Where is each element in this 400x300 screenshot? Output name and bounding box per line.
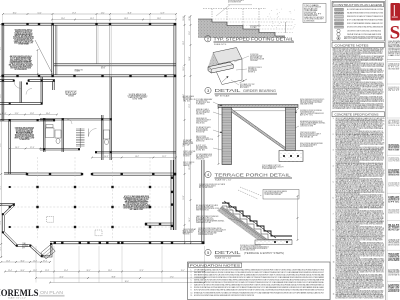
interior dim chain right part	[92, 157, 176, 159]
svg-text:27'-3": 27'-3"	[140, 270, 144, 272]
svg-text:MIN 6 IN: MIN 6 IN	[388, 213, 399, 215]
svg-text:11'-6": 11'-6"	[189, 31, 191, 35]
svg-text:IN 10: IN 10	[183, 100, 191, 102]
detail 3: title circle	[205, 87, 211, 93]
svg-text:GIRDER BEARING: GIRDER BEARING	[243, 89, 277, 93]
svg-text:11'-3": 11'-3"	[6, 260, 10, 262]
svg-text:16'-3": 16'-3"	[124, 18, 128, 20]
svg-text:DETAIL: DETAIL	[215, 250, 242, 255]
svg-text:16'-0": 16'-0"	[0, 220, 2, 224]
mid-left room partition	[19, 81, 21, 102]
hallway wall stub	[52, 81, 54, 90]
svg-text:WITH 2: WITH 2	[248, 72, 255, 74]
svg-text:6 FT OC: 6 FT OC	[388, 201, 399, 203]
svg-text:26'-9": 26'-9"	[157, 18, 161, 20]
svg-text:26'-1": 26'-1"	[15, 147, 19, 149]
svg-text:32'-1": 32'-1"	[87, 270, 91, 272]
garage: sloped floor diagonal	[35, 40, 53, 74]
svg-text:23'-0": 23'-0"	[61, 18, 65, 20]
mid-left room top wall	[0, 79, 14, 81]
title strip: red logo block	[391, 3, 400, 21]
detail 5: landing	[255, 240, 292, 245]
bottom wall	[50, 241, 204, 243]
detail 5: diagonal stringer line	[224, 201, 276, 238]
svg-text:REF: NO SCALE: REF: NO SCALE	[215, 94, 230, 97]
detail 4: upper slab line between walls	[232, 110, 286, 112]
svg-text:IN 10 FT: IN 10 FT	[388, 90, 399, 92]
svg-text:31'-8": 31'-8"	[30, 113, 34, 115]
pier grid dashed lines	[10, 186, 170, 188]
svg-text:10'-4": 10'-4"	[38, 12, 42, 14]
title strip: dividers and small blocks	[387, 59, 400, 61]
detail 5: stipple band under steps	[220, 206, 293, 242]
svg-text:6 IN IN: 6 IN IN	[196, 150, 205, 152]
floor plan: right dimension chain 1	[184, 16, 186, 244]
floor plan: bottom dimension chain 2	[36, 277, 205, 279]
mid horizontal dimension chain	[0, 114, 57, 116]
svg-text:29'-2": 29'-2"	[108, 270, 112, 272]
garage: wall posts	[2, 23, 4, 25]
garage: outer walls	[3, 22, 177, 24]
svg-text:8'-8": 8'-8"	[0, 46, 2, 50]
svg-text:22'-9": 22'-9"	[0, 185, 2, 189]
lower-left interior dim	[10, 148, 40, 150]
big slab room: right wall	[173, 23, 175, 230]
bath fixtures	[46, 128, 55, 138]
svg-text:26'-9": 26'-9"	[104, 156, 108, 158]
detail 2: small dim arrows	[285, 22, 287, 33]
detail 3: girder beam	[208, 62, 233, 73]
detail 5: title circle	[205, 249, 211, 255]
floor plan: bottom dimension chain 1	[5, 271, 205, 273]
bath cluster walls	[43, 118, 45, 152]
svg-text:31'-4": 31'-4"	[64, 270, 68, 272]
svg-text:17'-3": 17'-3"	[72, 12, 76, 14]
detail 4: left wall (block coursing)	[222, 108, 232, 165]
entry steps (rotated)	[41, 245, 55, 259]
stair treads	[76, 128, 85, 130]
svg-text:TERRACE PORCH DETAIL: TERRACE PORCH DETAIL	[215, 172, 292, 177]
foundation notes box	[188, 262, 331, 300]
detail 4: interior grade diagonal	[232, 109, 286, 150]
svg-text:15'-7": 15'-7"	[181, 270, 185, 272]
svg-text:10'-1": 10'-1"	[90, 18, 94, 20]
svg-text:DETAIL: DETAIL	[215, 88, 242, 93]
detail 3: leader lines	[234, 56, 249, 62]
detail 4: title circle	[205, 171, 211, 177]
terrace walls	[170, 160, 172, 230]
svg-text:17'-9": 17'-9"	[189, 104, 191, 108]
svg-text:WITH 2 NO: WITH 2 NO	[388, 186, 400, 188]
mid-left room door arc	[14, 81, 21, 88]
floor plan: bottom overall dimension chain	[50, 282, 205, 284]
svg-text:JOINTS 6 IN THE: JOINTS 6 IN THE	[300, 126, 313, 128]
svg-text:3000 PSI MIN: 3000 PSI MIN	[388, 161, 399, 163]
svg-text:FOUNDATION NOTES: FOUNDATION NOTES	[190, 264, 240, 268]
detail 4: top slab	[218, 105, 298, 108]
svg-text:31'-1": 31'-1"	[15, 113, 19, 115]
svg-text:6 FT: 6 FT	[22, 247, 25, 249]
big slab left wall	[55, 25, 57, 75]
lower interior long wall	[27, 172, 82, 174]
pier squares	[36, 186, 38, 188]
svg-text:SCALE: N.T.S.: SCALE: N.T.S.	[214, 43, 227, 46]
svg-text:ON PLAN: ON PLAN	[40, 290, 63, 295]
door arcs	[89, 129, 97, 137]
svg-text:18'-4": 18'-4"	[183, 16, 185, 20]
column separator lines	[330, 0, 332, 300]
svg-text:22'-4": 22'-4"	[60, 276, 64, 278]
detail 5: right dim line	[297, 196, 299, 240]
mid wall	[0, 118, 55, 120]
svg-text:31'-8": 31'-8"	[128, 12, 132, 14]
svg-text:12'-3": 12'-3"	[183, 41, 185, 45]
bath wall posts	[43, 118, 45, 120]
garage: interior dim line	[37, 50, 39, 74]
svg-text:17'-5": 17'-5"	[170, 276, 174, 278]
svg-text:30'-1": 30'-1"	[13, 12, 17, 14]
svg-text:FIRM UNDISTURBED: FIRM UNDISTURBED	[183, 233, 190, 235]
svg-text:37'-4": 37'-4"	[30, 147, 34, 149]
svg-text:16'-2": 16'-2"	[135, 156, 139, 158]
long interior wall posts	[2, 75, 4, 77]
detail 5: stepped section	[222, 203, 292, 236]
detail 2: sparse dots right	[268, 9, 296, 29]
svg-text:36'-0": 36'-0"	[125, 281, 129, 283]
svg-text:21'-3": 21'-3"	[0, 143, 2, 147]
mid-left room walls	[0, 102, 43, 104]
detail 5: railing note box	[263, 190, 299, 200]
dashed pier boxes	[47, 216, 54, 222]
detail 3: dim tick	[240, 79, 248, 83]
detail 5: leaders	[226, 206, 232, 210]
svg-text:15'-5": 15'-5"	[33, 270, 37, 272]
floor plan: top dimension chain 1	[3, 13, 176, 15]
big slab room: bottom wall	[54, 63, 176, 65]
big slab room: interior partition lines	[96, 25, 98, 64]
detail 2: soil mass with stepped top	[198, 19, 285, 38]
svg-text:3000 PSI MIN: 3000 PSI MIN	[388, 41, 400, 43]
svg-text:18'-1": 18'-1"	[183, 66, 185, 70]
svg-text:SITE CONDITIONS: SITE CONDITIONS	[183, 155, 190, 157]
svg-text:JOINTS 6 IN: JOINTS 6 IN	[388, 125, 399, 127]
svg-text:19'-9": 19'-9"	[183, 195, 185, 199]
detail 3: pocket arrow	[222, 77, 228, 83]
svg-text:UNDISTURBED SOIL PROVIDE: UNDISTURBED SOIL PROVIDE	[388, 174, 399, 176]
svg-text:UNDISTURBED SOIL PROVIDE: UNDISTURBED SOIL PROVIDE	[388, 48, 400, 50]
floor plan: left dimension chain	[0, 24, 2, 258]
detail 4: right wall	[286, 108, 296, 151]
lower-left room left wall	[8, 120, 10, 174]
svg-text:MOREMLS: MOREMLS	[0, 288, 39, 299]
concrete specifications header	[332, 112, 385, 117]
bay window walls	[3, 204, 52, 257]
svg-text:14'-1": 14'-1"	[101, 12, 105, 14]
floor plan: top dimension chain 2	[52, 19, 176, 21]
svg-text:(TERRACE & ENTRY STEPS): (TERRACE & ENTRY STEPS)	[244, 251, 284, 255]
svg-text:21'-2": 21'-2"	[162, 156, 166, 158]
svg-text:SCALE: 3/4" = 1'-0": SCALE: 3/4" = 1'-0"	[215, 256, 232, 259]
concrete notes header	[332, 43, 385, 48]
svg-text:CONCRETE SPECIFICATIONS: CONCRETE SPECIFICATIONS	[335, 113, 379, 117]
svg-text:WITH 2 NO: WITH 2 NO	[388, 53, 400, 55]
svg-text:S: S	[390, 23, 400, 44]
svg-text:12'-3": 12'-3"	[33, 260, 37, 262]
svg-text:13'-6": 13'-6"	[0, 246, 2, 250]
svg-text:ON FIRM: ON FIRM	[250, 60, 259, 62]
detail 2: dashed step level lines	[212, 18, 293, 20]
construction plan legend box	[332, 2, 385, 42]
detail 3: isometric wall opening	[213, 48, 242, 65]
long interior wall under garage	[3, 74, 177, 76]
detail 4: left wall dim line	[218, 108, 220, 164]
svg-text:6 IN IN 10 FT: 6 IN IN 10 FT	[304, 14, 321, 16]
extension lines	[2, 14, 4, 24]
svg-text:14'-1": 14'-1"	[189, 217, 191, 221]
svg-text:14'-8": 14'-8"	[0, 94, 2, 98]
svg-text:REINFORCE WITH 2 NO: REINFORCE WITH 2 NO	[196, 210, 210, 212]
svg-text:SCALE: 3/4" = 1'-0": SCALE: 3/4" = 1'-0"	[215, 179, 232, 182]
svg-text:ON FIRM UNDISTURBED SOIL PROVI: ON FIRM UNDISTURBED SOIL PROVIDE	[198, 234, 213, 236]
svg-text:6 IN THE: 6 IN THE	[133, 99, 143, 101]
detail 3: hatch on beam end	[208, 67, 211, 71]
svg-text:39'-8": 39'-8"	[112, 276, 116, 278]
svg-text:22'-8": 22'-8"	[189, 16, 191, 20]
floor plan: bottom dimension chain (bay)	[1, 261, 50, 263]
svg-text:12'-9": 12'-9"	[161, 12, 165, 14]
svg-text:37'-0": 37'-0"	[2, 113, 6, 115]
legend rows	[335, 8, 344, 10]
svg-text:34'-4": 34'-4"	[46, 113, 50, 115]
detail 2: dashed step outline above soil	[203, 8, 266, 10]
svg-text:37'-1": 37'-1"	[43, 260, 47, 262]
svg-text:24'-5": 24'-5"	[21, 270, 25, 272]
detail 2: note box	[303, 4, 326, 23]
detail 4: leaders	[213, 102, 222, 106]
detail 4: footing block	[279, 151, 303, 162]
floor plan: right dimension chain 2	[190, 16, 192, 244]
detail 2: title circle	[205, 36, 211, 42]
svg-text:TYP. STEPPED FOOTING DETAIL: TYP. STEPPED FOOTING DETAIL	[214, 37, 294, 42]
svg-text:22'-4": 22'-4"	[8, 270, 12, 272]
detail 5: railing dashed sketch	[240, 187, 262, 196]
svg-text:CONCRETE NOTES: CONCRETE NOTES	[335, 43, 369, 47]
svg-text:CONSTRUCTION PLAN LEGEND: CONSTRUCTION PLAN LEGEND	[334, 3, 383, 7]
svg-text:34'-4": 34'-4"	[21, 260, 25, 262]
svg-text:10'-8": 10'-8"	[189, 56, 191, 60]
svg-text:21'-3": 21'-3"	[45, 270, 49, 272]
